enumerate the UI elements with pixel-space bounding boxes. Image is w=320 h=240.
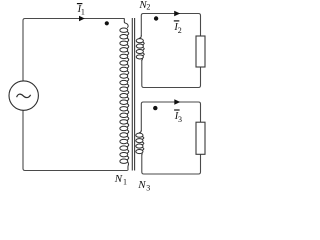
svg-text:2: 2 <box>146 3 150 12</box>
wire N2 coil entry <box>139 36 141 39</box>
wire secondary3 loop <box>141 102 200 131</box>
wire primary top <box>23 19 124 81</box>
label N2 <box>138 0 150 12</box>
wire N3 coil entry <box>139 130 141 133</box>
resistor load2 <box>196 36 205 67</box>
arrow I2 <box>174 11 180 17</box>
label N1 <box>114 173 127 187</box>
primary coil N1 <box>120 28 129 163</box>
dot secondary2 <box>154 16 158 20</box>
label I2 <box>173 22 181 35</box>
wire secondary2 loop <box>141 14 200 37</box>
label I3 <box>174 111 182 124</box>
svg-text:1: 1 <box>123 178 127 187</box>
svg-text:3: 3 <box>146 184 150 193</box>
wire N3 coil exit <box>141 153 143 155</box>
secondary coil N3 <box>136 133 144 153</box>
secondary coil N2 <box>136 39 144 59</box>
resistor load3 <box>196 122 205 154</box>
wire primary bottom <box>23 110 128 170</box>
svg-text:3: 3 <box>178 115 182 124</box>
wire primary coil exit <box>127 162 128 171</box>
arrow I3 <box>174 99 180 105</box>
svg-text:1: 1 <box>81 7 85 16</box>
svg-text:N: N <box>114 173 123 185</box>
transformer core <box>131 18 133 171</box>
dot secondary3 <box>153 106 157 110</box>
label I1 <box>77 4 85 17</box>
wire N2 coil exit <box>141 58 144 60</box>
wire primary coil entry <box>124 18 128 28</box>
svg-text:N: N <box>137 179 146 191</box>
arrow I1 <box>79 16 85 22</box>
svg-text:2: 2 <box>178 26 182 35</box>
dot primary <box>105 21 109 25</box>
label N3 <box>137 179 150 193</box>
ac source <box>9 81 38 110</box>
